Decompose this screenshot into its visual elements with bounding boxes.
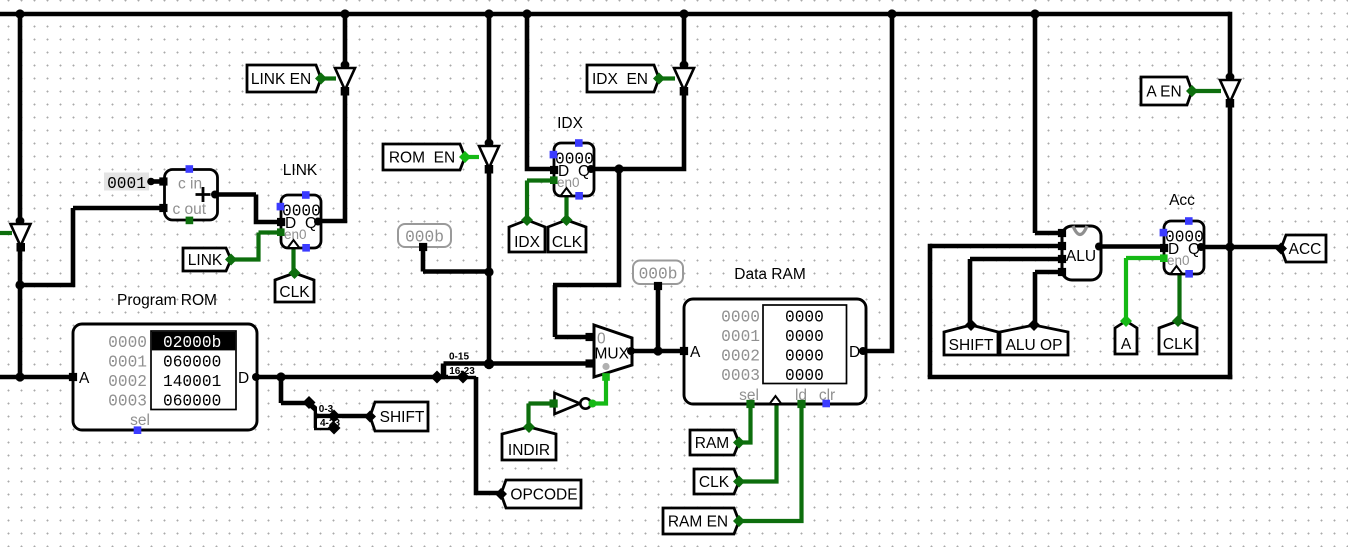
tunnel CLK (RAM clock) xyxy=(694,469,745,494)
wire A EN tunnel to buffer B5 (dark green) xyxy=(1192,89,1221,93)
wire ALU output to Acc D xyxy=(1099,244,1164,249)
wire left vertical x=20 lower xyxy=(18,247,23,377)
buffer B3 (ROM EN controlled buffer) xyxy=(479,146,499,174)
wire enable into left buffer B1 (dark green) xyxy=(0,231,12,235)
wire x=892 from rail to RAM D xyxy=(864,14,894,351)
svg-text:IDX: IDX xyxy=(514,234,541,251)
svg-text:LINK: LINK xyxy=(283,162,318,179)
wire splitter2 drop from ROM D xyxy=(281,377,309,403)
wire splitter2 diagonal xyxy=(308,403,317,411)
svg-text:ALU OP: ALU OP xyxy=(1006,337,1063,354)
wire IDX Q down to MUX input0 xyxy=(553,169,621,337)
tunnel INDIR xyxy=(502,421,556,460)
svg-text:c out: c out xyxy=(173,201,207,218)
wire left vertical x=20 upper xyxy=(18,14,23,221)
tunnel A EN xyxy=(1141,77,1198,105)
svg-text:A: A xyxy=(690,344,701,361)
svg-text:A: A xyxy=(79,370,90,387)
wire splitter2 leg 4-23 stub xyxy=(314,416,334,428)
svg-text:D: D xyxy=(238,370,249,387)
junction rail x=345 xyxy=(340,9,349,18)
wire ROM-EN buffer vertical x=489 lower xyxy=(487,169,492,365)
splitter S1 bit labels 0-15 / 16-23 xyxy=(431,350,478,384)
wire INDIR tunnel to NOT gate input xyxy=(529,404,552,429)
not-gate G1 xyxy=(550,393,597,414)
wire IDX-EN buffer vertical x=684 upper xyxy=(682,14,687,67)
tunnel IDX EN xyxy=(587,65,665,92)
wire CLK tunnel to IDX register clock xyxy=(564,195,568,221)
wire LINK EN tunnel to buffer B2 (dark green) xyxy=(321,76,336,80)
tunnel ALU OP xyxy=(1000,319,1068,355)
junction IDX Q xyxy=(614,164,623,173)
wire ALU loop left x=930 xyxy=(928,244,933,377)
wire IDX EN tunnel to buffer B4 (dark green) xyxy=(659,76,675,80)
wire adder c-out to left loop xyxy=(20,208,163,287)
wire LINK tunnel to LINK register en xyxy=(231,233,278,262)
tunnel CLK (IDX clock) xyxy=(548,214,586,252)
tunnel RAM (to sel) xyxy=(690,430,745,455)
wire LINK-EN buffer vertical x=345 lower to LINK Q xyxy=(318,91,347,221)
junction splitter2 at ROM D xyxy=(276,372,285,381)
wire constant 000b #2 down to RAM A wire xyxy=(656,286,661,351)
svg-text:0000: 0000 xyxy=(785,328,824,346)
wire RAM tunnel to RAM sel xyxy=(739,403,751,445)
wire CLK tunnel to RAM clock xyxy=(739,403,777,484)
junction rail x=684 xyxy=(679,9,688,18)
wire splitter1 riser xyxy=(441,364,447,379)
svg-text:MUX: MUX xyxy=(595,346,630,363)
tunnel ROM EN xyxy=(383,144,471,170)
mux MUX1 xyxy=(586,325,636,381)
svg-text:LINK: LINK xyxy=(188,252,223,269)
constant 0001 xyxy=(104,173,155,194)
svg-text:CLK: CLK xyxy=(552,234,583,251)
svg-text:SHIFT: SHIFT xyxy=(380,409,425,426)
svg-text:02000b: 02000b xyxy=(163,334,221,352)
wire x=1035 from rail to ALU input1 xyxy=(1035,14,1062,233)
register Acc xyxy=(1160,217,1205,277)
wire A tunnel to Acc register en (bright green) xyxy=(1126,258,1161,322)
wire ROM D output y=377 xyxy=(256,375,445,380)
junction rail x=489 xyxy=(484,9,493,18)
svg-text:c in: c in xyxy=(178,176,202,193)
alu U2 xyxy=(1058,226,1103,280)
buffer B1 (left controlled buffer) xyxy=(11,224,31,252)
junction Acc Q at A-EN vertical xyxy=(1225,242,1234,251)
tunnel CLK (Acc clock) xyxy=(1159,315,1197,354)
buffer B4 (IDX EN controlled buffer) xyxy=(674,68,694,96)
node buffer B3 input dot xyxy=(485,139,494,148)
register LINK xyxy=(277,191,322,251)
wire x=527 from rail to IDX D xyxy=(525,14,554,169)
junction ROM A xyxy=(15,372,24,381)
tunnel OPCODE (points left) xyxy=(495,480,581,508)
svg-text:0-15: 0-15 xyxy=(449,352,469,363)
wire constant 0001 to adder c-in xyxy=(150,179,163,184)
svg-text:LINK EN: LINK EN xyxy=(251,71,311,88)
wire into ROM A y=377 xyxy=(0,375,73,380)
tunnel RAM EN (to ld) xyxy=(663,508,745,534)
svg-text:0001: 0001 xyxy=(107,175,146,193)
svg-text:RAM EN: RAM EN xyxy=(668,514,728,531)
svg-text:060000: 060000 xyxy=(163,354,221,372)
svg-text:Program ROM: Program ROM xyxy=(117,292,217,309)
buffer B2 (LINK EN controlled buffer) xyxy=(335,68,355,96)
tunnel LINK EN xyxy=(247,65,327,92)
svg-text:0001: 0001 xyxy=(721,328,760,346)
wire splitter1 leg 16-23 xyxy=(437,377,501,495)
junction 000b #1 xyxy=(484,267,493,276)
svg-text:INDIR: INDIR xyxy=(508,442,550,459)
splitter S2 bit labels 0-3 / 4-23 xyxy=(303,396,343,435)
junction left c-out loop xyxy=(15,280,24,289)
svg-text:en0: en0 xyxy=(284,227,307,242)
wire splitter2 leg 0-3 to SHIFT xyxy=(314,409,370,416)
node buffer B4 input dot xyxy=(680,61,689,70)
junction splitter leg 0-15 xyxy=(484,359,494,369)
tunnel CLK (LINK clock) xyxy=(275,267,314,302)
svg-text:0003: 0003 xyxy=(108,393,147,411)
svg-text:0002: 0002 xyxy=(108,373,147,391)
svg-text:0000: 0000 xyxy=(785,367,824,385)
svg-text:CLK: CLK xyxy=(1163,336,1194,353)
wire LINK-EN buffer vertical x=345 upper xyxy=(343,14,348,67)
svg-text:140001: 140001 xyxy=(163,373,221,391)
node buffer B5 input dot xyxy=(1226,73,1235,82)
svg-text:en0: en0 xyxy=(557,175,580,190)
svg-text:IDX: IDX xyxy=(557,115,584,132)
junction 000b #2 at RAM A xyxy=(653,346,662,355)
tunnel A (to Acc en) xyxy=(1115,315,1137,354)
wire A-EN buffer vertical x=1230 lower xyxy=(1228,103,1233,379)
wire MUX output to RAM A xyxy=(631,349,684,354)
wire constant 000b #1 to ROM-EN vertical xyxy=(423,246,489,272)
svg-text:D: D xyxy=(849,344,860,361)
wire ALU-OP tunnel to ALU input4 xyxy=(1035,272,1062,323)
svg-text:ROM EN: ROM EN xyxy=(389,150,455,167)
svg-text:ACC: ACC xyxy=(1289,241,1322,258)
svg-text:Acc: Acc xyxy=(1169,192,1195,209)
svg-text:SHIFT: SHIFT xyxy=(949,337,994,354)
svg-text:CLK: CLK xyxy=(699,474,730,491)
wire Acc Q to ACC tunnel xyxy=(1201,245,1281,250)
register IDX xyxy=(550,139,595,199)
svg-text:060000: 060000 xyxy=(163,393,221,411)
wire splitter1 leg 0-15 to MUX input1 xyxy=(444,361,590,366)
wire RAM EN tunnel to RAM ld xyxy=(739,403,802,523)
constant 000b #2 xyxy=(633,261,683,291)
svg-text:OPCODE: OPCODE xyxy=(510,487,577,504)
wire SHIFT tunnel to ALU input3 xyxy=(970,259,1062,323)
wire IDX-EN buffer vertical x=684 lower to IDX Q xyxy=(590,91,686,169)
svg-text:0002: 0002 xyxy=(721,348,760,366)
tunnel IDX (to register en) xyxy=(509,214,545,252)
node buffer B1 input dot xyxy=(16,217,25,226)
svg-text:000b: 000b xyxy=(639,266,678,284)
wire ROM-EN buffer vertical x=489 upper xyxy=(487,14,492,145)
wire ALU loop bottom y=377 xyxy=(928,375,1233,380)
junction rail x=1035 xyxy=(1030,9,1039,18)
tunnel LINK (to register en) xyxy=(183,248,237,271)
junction rail x=527 xyxy=(522,9,531,18)
svg-text:ALU: ALU xyxy=(1066,248,1096,265)
junction rail x=20 xyxy=(15,9,24,18)
constant 000b #1 xyxy=(398,224,451,251)
tunnel SHIFT (from ROM, points left) xyxy=(364,402,428,431)
wire top bus rail y=14 xyxy=(0,12,1230,17)
svg-text:0001: 0001 xyxy=(108,354,147,372)
svg-text:0003: 0003 xyxy=(721,367,760,385)
svg-text:A: A xyxy=(1121,336,1132,353)
wire A-EN buffer vertical x=1230 upper xyxy=(1228,12,1233,79)
svg-text:en0: en0 xyxy=(1167,253,1190,268)
svg-text:IDX EN: IDX EN xyxy=(592,71,648,88)
wire CLK tunnel to Acc clock xyxy=(1177,273,1181,322)
svg-text:0000: 0000 xyxy=(785,348,824,366)
ROM (Program ROM box) xyxy=(69,324,260,434)
svg-text:0000: 0000 xyxy=(108,334,147,352)
buffer B5 (A EN controlled buffer) xyxy=(1220,80,1240,108)
wire NOT gate output to MUX select (bright green) xyxy=(592,374,606,406)
wire CLK tunnel to LINK register clock xyxy=(291,246,295,273)
RAM (Data RAM box) xyxy=(680,299,867,408)
tunnel SHIFT (to ALU) xyxy=(944,319,998,355)
svg-text:0000: 0000 xyxy=(785,309,824,327)
svg-text:A EN: A EN xyxy=(1146,84,1181,101)
svg-text:Data RAM: Data RAM xyxy=(734,266,806,283)
wire ALU input2 y=246 xyxy=(930,244,1062,249)
wire IDX tunnel to IDX register en xyxy=(527,181,551,222)
svg-text:0000: 0000 xyxy=(721,309,760,327)
tunnel ACC (points left) xyxy=(1275,235,1326,262)
svg-text:RAM: RAM xyxy=(695,435,729,452)
wire adder output to LINK D xyxy=(216,195,281,225)
node buffer B2 input dot xyxy=(341,61,350,70)
wire ROM EN tunnel to buffer B3 (bright green) xyxy=(465,155,479,159)
junction rail x=892 xyxy=(887,9,896,18)
incrementer U1 (c in / c out box with +) xyxy=(159,165,219,224)
svg-text:CLK: CLK xyxy=(279,284,310,301)
